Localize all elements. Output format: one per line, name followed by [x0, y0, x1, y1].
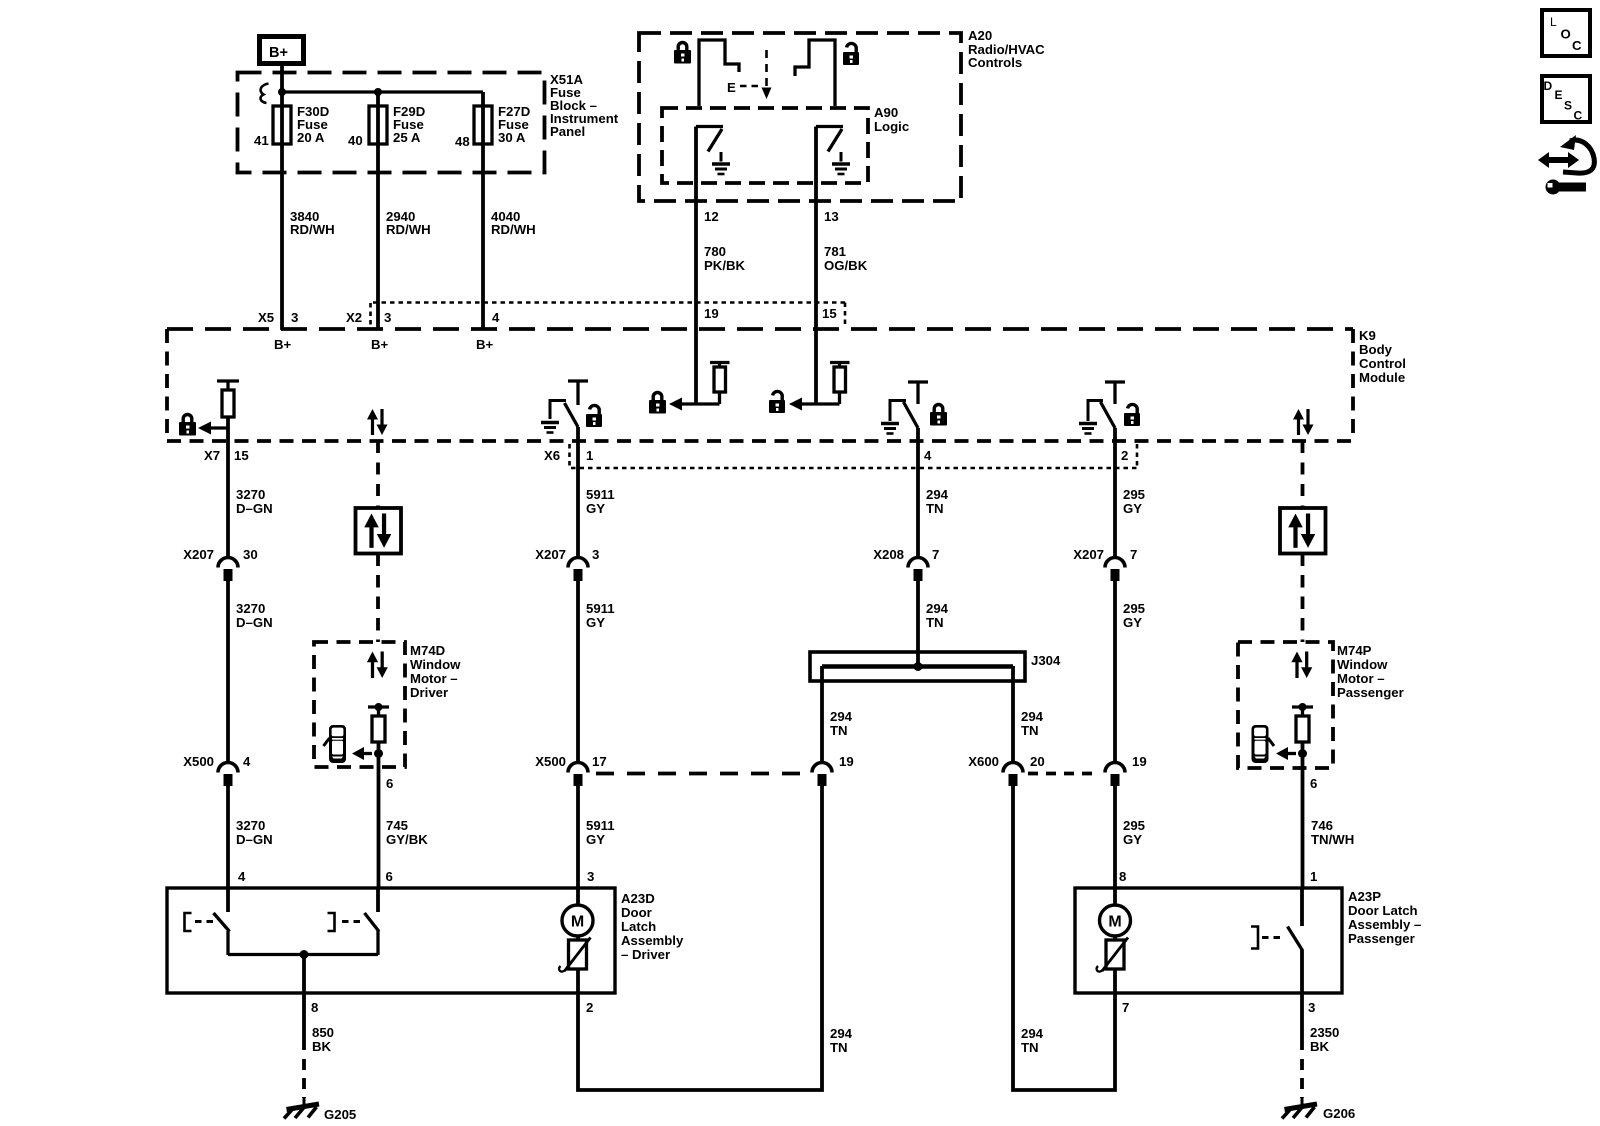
svg-text:D–GN: D–GN [236, 615, 273, 630]
svg-text:Motor –: Motor – [410, 671, 458, 686]
svg-text:A23P: A23P [1348, 889, 1381, 904]
svg-text:6: 6 [1310, 776, 1317, 791]
svg-text:2: 2 [1121, 448, 1128, 463]
svg-text:GY: GY [586, 832, 605, 847]
svg-text:A90: A90 [874, 105, 898, 120]
svg-text:294: 294 [1021, 1026, 1044, 1041]
svg-text:Logic: Logic [874, 119, 909, 134]
svg-text:Control: Control [1359, 356, 1406, 371]
svg-text:19: 19 [1132, 754, 1147, 769]
svg-text:Module: Module [1359, 370, 1405, 385]
svg-text:13: 13 [824, 209, 839, 224]
svg-text:Assembly: Assembly [621, 933, 684, 948]
svg-text:GY: GY [586, 615, 605, 630]
svg-text:3: 3 [384, 310, 391, 325]
svg-text:X500: X500 [183, 754, 214, 769]
svg-text:746: 746 [1311, 818, 1333, 833]
svg-text:D: D [1544, 79, 1553, 93]
svg-text:C: C [1572, 38, 1582, 53]
svg-text:20: 20 [1030, 754, 1045, 769]
svg-text:Passenger: Passenger [1337, 685, 1404, 700]
svg-text:B+: B+ [476, 337, 494, 352]
svg-text:Passenger: Passenger [1348, 931, 1415, 946]
svg-text:40: 40 [348, 133, 363, 148]
svg-text:X5: X5 [258, 310, 274, 325]
svg-text:48: 48 [455, 134, 470, 149]
svg-text:TN: TN [926, 615, 944, 630]
svg-text:M74D: M74D [410, 643, 445, 658]
svg-text:GY: GY [586, 501, 605, 516]
svg-text:X2: X2 [346, 310, 362, 325]
svg-text:294: 294 [926, 487, 949, 502]
svg-text:D–GN: D–GN [236, 832, 273, 847]
svg-text:X6: X6 [544, 448, 560, 463]
svg-text:7: 7 [1122, 1000, 1129, 1015]
svg-text:15: 15 [234, 448, 249, 463]
svg-text:X208: X208 [873, 547, 904, 562]
svg-text:X500: X500 [535, 754, 566, 769]
svg-text:30 A: 30 A [498, 130, 526, 145]
svg-text:3: 3 [592, 547, 599, 562]
svg-text:B+: B+ [269, 45, 288, 61]
svg-text:5911: 5911 [586, 487, 615, 502]
svg-text:1: 1 [586, 448, 593, 463]
svg-text:5911: 5911 [586, 818, 615, 833]
svg-text:3270: 3270 [236, 601, 265, 616]
svg-text:Latch: Latch [621, 919, 656, 934]
svg-text:X600: X600 [968, 754, 999, 769]
svg-text:12: 12 [704, 209, 719, 224]
svg-text:K9: K9 [1359, 328, 1376, 343]
svg-text:30: 30 [243, 547, 258, 562]
svg-text:OG/BK: OG/BK [824, 258, 868, 273]
svg-text:PK/BK: PK/BK [704, 258, 746, 273]
svg-text:GY: GY [1123, 832, 1142, 847]
svg-text:7: 7 [1130, 547, 1137, 562]
svg-text:E: E [727, 80, 736, 95]
svg-text:7: 7 [932, 547, 939, 562]
svg-text:RD/WH: RD/WH [290, 222, 335, 237]
svg-text:2350: 2350 [1310, 1025, 1339, 1040]
svg-text:Assembly –: Assembly – [1348, 917, 1421, 932]
svg-text:TN: TN [926, 501, 944, 516]
svg-text:3270: 3270 [236, 487, 265, 502]
svg-text:4: 4 [243, 754, 251, 769]
svg-text:6: 6 [386, 776, 393, 791]
svg-text:3: 3 [1308, 1000, 1315, 1015]
svg-text:4: 4 [238, 869, 246, 884]
svg-text:C: C [1574, 109, 1583, 123]
svg-text:X7: X7 [204, 448, 220, 463]
svg-text:A23D: A23D [621, 891, 655, 906]
svg-text:Window: Window [1337, 657, 1388, 672]
svg-text:GY/BK: GY/BK [386, 832, 428, 847]
svg-text:6: 6 [386, 869, 393, 884]
svg-text:19: 19 [704, 306, 719, 321]
svg-text:Motor –: Motor – [1337, 671, 1385, 686]
svg-text:O: O [1561, 27, 1571, 42]
svg-text:L: L [1550, 15, 1557, 29]
svg-text:2: 2 [586, 1000, 593, 1015]
svg-text:GY: GY [1123, 615, 1142, 630]
svg-text:X207: X207 [1073, 547, 1104, 562]
svg-text:781: 781 [824, 244, 846, 259]
svg-text:15: 15 [822, 306, 837, 321]
svg-text:17: 17 [592, 754, 607, 769]
svg-text:S: S [1564, 99, 1572, 113]
svg-text:8: 8 [311, 1000, 318, 1015]
svg-text:TN/WH: TN/WH [1311, 832, 1354, 847]
svg-text:– Driver: – Driver [621, 947, 670, 962]
svg-text:Window: Window [410, 657, 461, 672]
svg-text:RD/WH: RD/WH [491, 222, 536, 237]
svg-text:A20: A20 [968, 28, 992, 43]
svg-text:3: 3 [291, 310, 298, 325]
svg-text:3270: 3270 [236, 818, 265, 833]
svg-text:294: 294 [830, 1026, 853, 1041]
svg-text:25 A: 25 A [393, 130, 421, 145]
svg-text:GY: GY [1123, 501, 1142, 516]
svg-text:TN: TN [1021, 723, 1039, 738]
svg-text:41: 41 [254, 133, 269, 148]
svg-text:TN: TN [830, 1040, 848, 1055]
svg-text:780: 780 [704, 244, 726, 259]
svg-text:Controls: Controls [968, 55, 1022, 70]
svg-text:TN: TN [1021, 1040, 1039, 1055]
svg-text:Door: Door [621, 905, 652, 920]
svg-text:8: 8 [1119, 869, 1126, 884]
svg-text:294: 294 [830, 709, 853, 724]
svg-text:X207: X207 [183, 547, 214, 562]
svg-text:19: 19 [839, 754, 854, 769]
svg-text:E: E [1555, 88, 1563, 102]
svg-text:3: 3 [587, 869, 594, 884]
svg-text:294: 294 [1021, 709, 1044, 724]
svg-text:G206: G206 [1323, 1106, 1355, 1121]
svg-text:J304: J304 [1031, 653, 1061, 668]
svg-text:BK: BK [1310, 1039, 1330, 1054]
svg-text:850: 850 [312, 1025, 334, 1040]
svg-text:295: 295 [1123, 818, 1145, 833]
svg-text:M74P: M74P [1337, 643, 1372, 658]
svg-text:B+: B+ [371, 337, 389, 352]
svg-text:Driver: Driver [410, 685, 448, 700]
svg-text:4: 4 [492, 310, 500, 325]
svg-text:X207: X207 [535, 547, 566, 562]
svg-text:D–GN: D–GN [236, 501, 273, 516]
svg-text:4: 4 [924, 448, 932, 463]
svg-text:295: 295 [1123, 601, 1145, 616]
svg-text:B+: B+ [274, 337, 292, 352]
svg-text:BK: BK [312, 1039, 332, 1054]
svg-text:5911: 5911 [586, 601, 615, 616]
svg-text:294: 294 [926, 601, 949, 616]
svg-text:295: 295 [1123, 487, 1145, 502]
svg-text:Door Latch: Door Latch [1348, 903, 1418, 918]
svg-text:Panel: Panel [550, 124, 585, 139]
svg-text:G205: G205 [324, 1107, 356, 1122]
svg-text:TN: TN [830, 723, 848, 738]
svg-text:745: 745 [386, 818, 408, 833]
svg-text:1: 1 [1310, 869, 1317, 884]
svg-text:RD/WH: RD/WH [386, 222, 431, 237]
svg-text:20 A: 20 A [297, 130, 325, 145]
svg-text:Body: Body [1359, 342, 1393, 357]
